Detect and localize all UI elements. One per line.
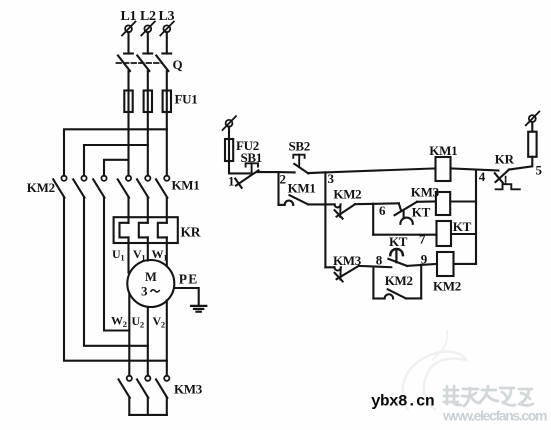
svg-text:SB1: SB1 bbox=[241, 150, 263, 165]
KR heater element phase 1 bbox=[120, 198, 129, 273]
wire node 3 to KM1 coil bbox=[325, 168, 435, 172]
wire KM2 output 3 to W2 leg bbox=[104, 198, 129, 331]
ground symbol bbox=[191, 306, 206, 312]
wire KT contact through node 9 to KM2 coil bbox=[407, 264, 437, 266]
watermark chinese strokes (dianzi fashaoyou) bbox=[444, 386, 533, 406]
svg-text:KM1: KM1 bbox=[288, 181, 316, 196]
svg-text:PE: PE bbox=[179, 272, 199, 287]
wire node 8 drop bbox=[372, 267, 374, 299]
svg-text:ybx8.cn: ybx8.cn bbox=[371, 393, 434, 411]
terminal above FU2 bbox=[223, 116, 237, 130]
wire right fuse to terminal bbox=[531, 122, 533, 132]
svg-text:M: M bbox=[145, 270, 157, 284]
contact KM3 (NC) row 5 bbox=[335, 266, 359, 282]
wire KM2 coil to rail bbox=[454, 263, 477, 265]
wire node 2 drop bbox=[277, 172, 279, 205]
wire crossover L2 to middle column bbox=[84, 145, 148, 176]
wire node 3 corner to KM3 contact bbox=[325, 266, 334, 268]
fuse FU1 phase 1 bbox=[124, 91, 132, 113]
wire PE from motor bbox=[174, 288, 199, 306]
svg-text:KM2: KM2 bbox=[433, 279, 461, 294]
thermal contact KR actuator bracket bbox=[496, 184, 520, 189]
svg-text:Q: Q bbox=[173, 57, 183, 72]
contactor KM1 main contact 1 bbox=[118, 176, 131, 198]
contactor KM2 main contact 3 bbox=[93, 176, 106, 198]
svg-text:KM3: KM3 bbox=[411, 184, 440, 199]
contactor KM1 main contact 3 bbox=[156, 176, 169, 198]
svg-text:KT: KT bbox=[453, 219, 472, 234]
motor M circle bbox=[127, 260, 174, 307]
svg-text:www.elecfans.com: www.elecfans.com bbox=[442, 408, 547, 424]
wire KM3 coil to rail bbox=[450, 200, 476, 202]
thermal contact KR dotted link bbox=[505, 177, 507, 185]
timed contact KT (NO delayed) row 5 bbox=[388, 249, 407, 266]
wire L1 drop to switch bbox=[127, 32, 129, 53]
svg-text:V1: V1 bbox=[133, 247, 145, 263]
svg-text:U1: U1 bbox=[112, 247, 124, 263]
svg-text:KR: KR bbox=[181, 225, 201, 240]
thermal contact KR blade bbox=[496, 170, 510, 182]
wire L1 switch to fuse and down to KM1 contact bbox=[127, 71, 129, 176]
wire crossover L3 to left column bbox=[64, 129, 167, 175]
wire KT coil to rail bbox=[451, 233, 476, 235]
thermal relay KR outer box bbox=[114, 217, 178, 243]
terminal above right fuse bbox=[526, 112, 540, 126]
wire L2 switch to fuse and down to KM1 contact bbox=[147, 71, 149, 176]
fuse FU1 phase 3 bbox=[163, 91, 171, 113]
wire node 6 drop bbox=[372, 204, 374, 235]
coil KM3 bbox=[436, 192, 450, 215]
fuse FU2 bbox=[225, 139, 233, 161]
wire KM3 contact to node 8 and KT stub bbox=[359, 266, 392, 267]
contactor KM1 main contact 2 bbox=[137, 176, 150, 198]
svg-text:KT: KT bbox=[389, 234, 408, 249]
svg-text:KM1: KM1 bbox=[172, 178, 200, 193]
wire motor V2 leg down to KM3 bbox=[166, 300, 168, 375]
right rail from node 4 bbox=[475, 170, 477, 264]
wire node 9 drop bbox=[420, 265, 422, 299]
contactor KM2 main contact 2 bbox=[73, 176, 86, 198]
wire crossover L1 to right column bbox=[104, 160, 129, 176]
terminal L2 bbox=[141, 22, 155, 36]
wire KM3 star point bar bbox=[129, 398, 167, 415]
wire KR to node 5 and right fuse bbox=[509, 157, 532, 170]
terminal L3 bbox=[160, 22, 174, 36]
svg-text:L3: L3 bbox=[159, 9, 175, 24]
svg-text:KM3: KM3 bbox=[333, 253, 362, 268]
pushbutton SB2 (NO) blade bbox=[294, 164, 308, 173]
contactor KM3 contact 2 bbox=[137, 376, 150, 398]
svg-text:4: 4 bbox=[479, 169, 486, 184]
wire node 1 to node 2 bbox=[257, 171, 279, 173]
svg-text:1: 1 bbox=[228, 173, 234, 188]
coil KM1 bbox=[436, 157, 451, 181]
fuse FU (right) bbox=[528, 132, 536, 157]
svg-text:6: 6 bbox=[379, 203, 386, 218]
svg-text:FU1: FU1 bbox=[175, 92, 198, 107]
svg-text:KM3: KM3 bbox=[174, 382, 203, 397]
coil KM2 bbox=[437, 252, 454, 276]
aux contact KM1 (NO) row 2 bbox=[279, 195, 326, 205]
timed contact KT (NC delayed) row 3 bbox=[395, 202, 417, 224]
svg-text:L1: L1 bbox=[121, 9, 137, 24]
svg-text:3: 3 bbox=[141, 284, 148, 299]
pushbutton SB1 cross stroke bbox=[235, 179, 241, 188]
contactor KM3 contact 1 bbox=[119, 376, 132, 398]
coil KT bbox=[437, 221, 452, 246]
svg-text:KM2: KM2 bbox=[333, 186, 361, 201]
terminal L1 bbox=[122, 22, 136, 36]
svg-text:V2: V2 bbox=[153, 314, 165, 330]
svg-text:5: 5 bbox=[536, 163, 543, 178]
wire KM2 contact to node 6 bbox=[355, 202, 399, 205]
svg-text:KR: KR bbox=[495, 152, 515, 167]
wire L3 switch to fuse and down to KM1 contact bbox=[166, 71, 168, 176]
svg-text:W1: W1 bbox=[152, 247, 168, 263]
KR heater element phase 3 bbox=[158, 198, 167, 266]
svg-text:8: 8 bbox=[376, 252, 383, 267]
wire motor U2 leg down to KM3 bbox=[147, 307, 149, 376]
svg-text:KM2: KM2 bbox=[27, 180, 55, 195]
thermal contact KR cross stroke bbox=[495, 173, 503, 183]
wire L3 drop to switch bbox=[166, 32, 168, 53]
KR heater element phase 2 bbox=[139, 198, 148, 261]
switch Q pole 1 bbox=[118, 54, 133, 72]
svg-text:3: 3 bbox=[328, 171, 335, 186]
wire node 2 to SB2 bbox=[279, 171, 295, 173]
pushbutton SB1 (NC) blade bbox=[236, 170, 259, 185]
wire node 3 drop bbox=[324, 172, 326, 267]
contact KM2 (NC) row 3 bbox=[325, 204, 355, 218]
svg-text:7: 7 bbox=[419, 231, 426, 246]
contactor KM3 contact 3 bbox=[156, 376, 169, 398]
svg-text:9: 9 bbox=[421, 252, 428, 267]
svg-text:KT: KT bbox=[412, 204, 431, 219]
switch Q pole 2 bbox=[137, 54, 152, 72]
wire row 4 node 7 to KT coil bbox=[373, 234, 436, 236]
svg-text:U2: U2 bbox=[132, 314, 144, 330]
wire motor W2 leg down to KM3 bbox=[128, 294, 130, 376]
pushbutton SB1 actuator bbox=[246, 163, 258, 174]
wire KM1 coil to node 4 and KR bbox=[451, 168, 499, 170]
svg-text:L2: L2 bbox=[140, 9, 156, 24]
wire SB2 to node 3 bbox=[308, 171, 325, 174]
wire KM2 output 1 to V2 leg bbox=[64, 198, 167, 361]
aux contact KM2 (NO) row 6 bbox=[373, 289, 421, 298]
svg-text:2: 2 bbox=[280, 171, 286, 186]
contactor KM2 main contact 1 bbox=[53, 176, 66, 198]
pushbutton SB2 actuator bbox=[293, 155, 304, 167]
svg-text:KM1: KM1 bbox=[429, 143, 457, 158]
svg-text:KM2: KM2 bbox=[385, 273, 413, 288]
wire FU2 down to node 1 bbox=[229, 127, 250, 174]
switch Q pole 3 bbox=[156, 54, 171, 72]
svg-text:W2: W2 bbox=[111, 314, 127, 330]
wire KM2 output 2 to U2 leg bbox=[84, 198, 148, 346]
watermark leaf swoosh bbox=[403, 352, 466, 410]
fuse FU1 phase 2 bbox=[144, 91, 152, 113]
switch Q linkage dashed bbox=[117, 62, 163, 64]
svg-text:SB2: SB2 bbox=[289, 139, 311, 154]
wire KT contact to KM3 coil bbox=[417, 200, 436, 202]
wire L2 drop to switch bbox=[147, 32, 149, 53]
